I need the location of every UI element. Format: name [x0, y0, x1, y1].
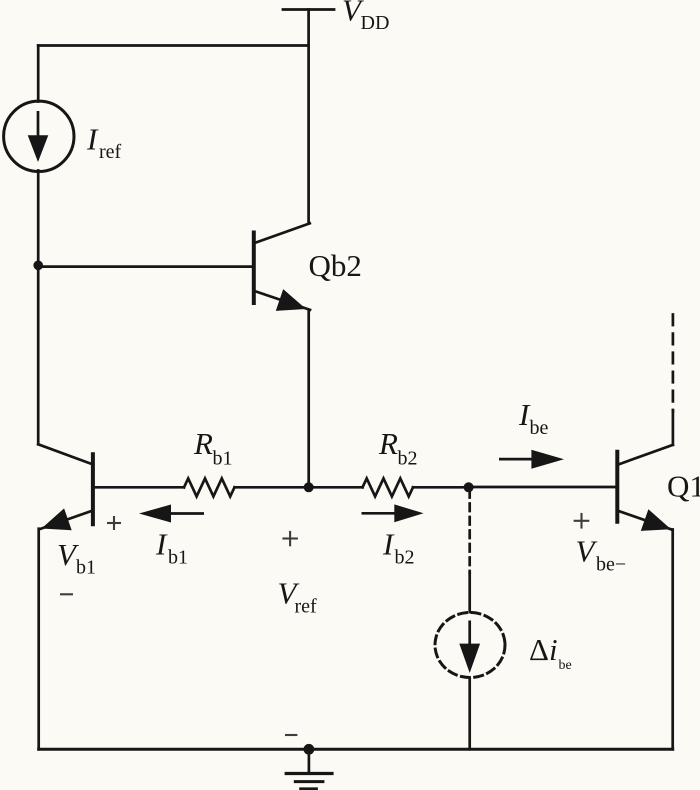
wire VDD bar down to Qb2 collector — [307, 10, 310, 224]
current source delta-i arrow — [459, 621, 480, 674]
transistor Qb1 collector diagonal — [38, 444, 92, 464]
transistor Q1 emitter diagonal — [617, 511, 671, 530]
plus sign V_ref — [282, 531, 298, 546]
wire Rb1 to node B — [235, 486, 309, 489]
wire top horizontal from Iref to VDD vertical — [38, 44, 308, 47]
node A dot — [33, 261, 43, 271]
svg-text:I: I — [155, 527, 168, 562]
transistor Q1 collector diagonal — [618, 445, 673, 465]
bottom rail wire — [39, 748, 673, 751]
ground bar 3 — [301, 787, 317, 790]
wire delta-i source to bottom rail — [468, 679, 471, 750]
current source I_ref arrow — [28, 111, 49, 162]
svg-text:b1: b1 — [76, 557, 96, 579]
transistor Q1 emitter arrowhead — [641, 509, 671, 531]
resistor Rb1 zigzag — [184, 478, 235, 496]
transistor Qb2 emitter arrowhead — [276, 289, 306, 311]
svg-text:I: I — [382, 527, 395, 562]
wire into delta-i source circle — [468, 573, 471, 612]
ground node dot — [304, 744, 315, 755]
wire node C to Q1 base — [469, 486, 616, 489]
VDD supply bar — [283, 8, 334, 11]
svg-text:ref: ref — [295, 596, 318, 618]
svg-text:Δ: Δ — [529, 632, 549, 667]
ground bar 2 — [295, 780, 323, 783]
node B dot — [304, 482, 314, 492]
svg-text:be: be — [559, 658, 572, 673]
resistor Rb2 zigzag — [363, 478, 414, 496]
svg-text:be: be — [530, 417, 549, 439]
transistor Qb2 collector diagonal — [255, 223, 310, 243]
svg-text:R: R — [378, 426, 398, 461]
transistor Q1 base bar — [615, 452, 619, 522]
wire Rb2 to node C — [413, 486, 469, 489]
svg-text:b2: b2 — [398, 447, 418, 469]
transistor Qb1 emitter diagonal — [41, 511, 93, 529]
svg-text:Qb2: Qb2 — [309, 248, 362, 283]
svg-text:be−: be− — [596, 554, 626, 576]
wire left rail top to Iref circle — [37, 46, 40, 102]
plus sign V_be — [574, 513, 590, 529]
current source I_ref circle — [4, 101, 74, 171]
ground bar 1 — [286, 772, 332, 775]
minus sign V_b1 — [60, 593, 73, 595]
current arrow I_b2 — [362, 504, 424, 522]
transistor Qb1 base bar — [91, 454, 95, 524]
svg-text:b1: b1 — [213, 447, 233, 469]
current arrow I_b1 — [139, 505, 204, 523]
node C dot — [464, 482, 474, 492]
svg-text:Q1: Q1 — [667, 469, 700, 504]
svg-text:b1: b1 — [168, 546, 188, 568]
current arrow I_be — [499, 450, 564, 469]
svg-text:R: R — [193, 426, 213, 461]
transistor Q1 collector vertical — [672, 411, 675, 445]
wire node B to resistor Rb2 — [309, 486, 363, 489]
transistor Q1 collector dashed stub — [672, 315, 675, 412]
wire Qb1 base to resistor Rb1 — [94, 486, 184, 489]
svg-text:i: i — [549, 632, 558, 667]
ground stub — [308, 749, 311, 772]
current source delta-i dashed circle — [435, 613, 505, 678]
wire Q1 emitter down to bottom rail — [671, 530, 674, 750]
transistor Qb2 emitter diagonal — [255, 291, 311, 310]
transistor Qb1 emitter arrowhead — [42, 508, 72, 530]
svg-text:ref: ref — [99, 141, 122, 163]
wire Qb2 base from node A — [38, 265, 252, 268]
svg-text:I: I — [86, 122, 99, 157]
transistor Qb2 base bar — [252, 233, 256, 304]
plus sign V_b1 — [107, 516, 121, 530]
wire Qb2 emitter down to node B — [307, 310, 310, 488]
svg-text:b2: b2 — [395, 546, 415, 568]
wire Iref circle bottom to node A — [37, 171, 40, 266]
svg-text:V: V — [576, 534, 598, 569]
svg-text:DD: DD — [361, 12, 390, 34]
minus sign above ground — [285, 734, 297, 736]
dashed wire node C down — [468, 490, 471, 573]
wire Qb1 emitter down to bottom rail — [37, 529, 40, 750]
wire node A down to Qb1 collector bend — [37, 265, 40, 444]
